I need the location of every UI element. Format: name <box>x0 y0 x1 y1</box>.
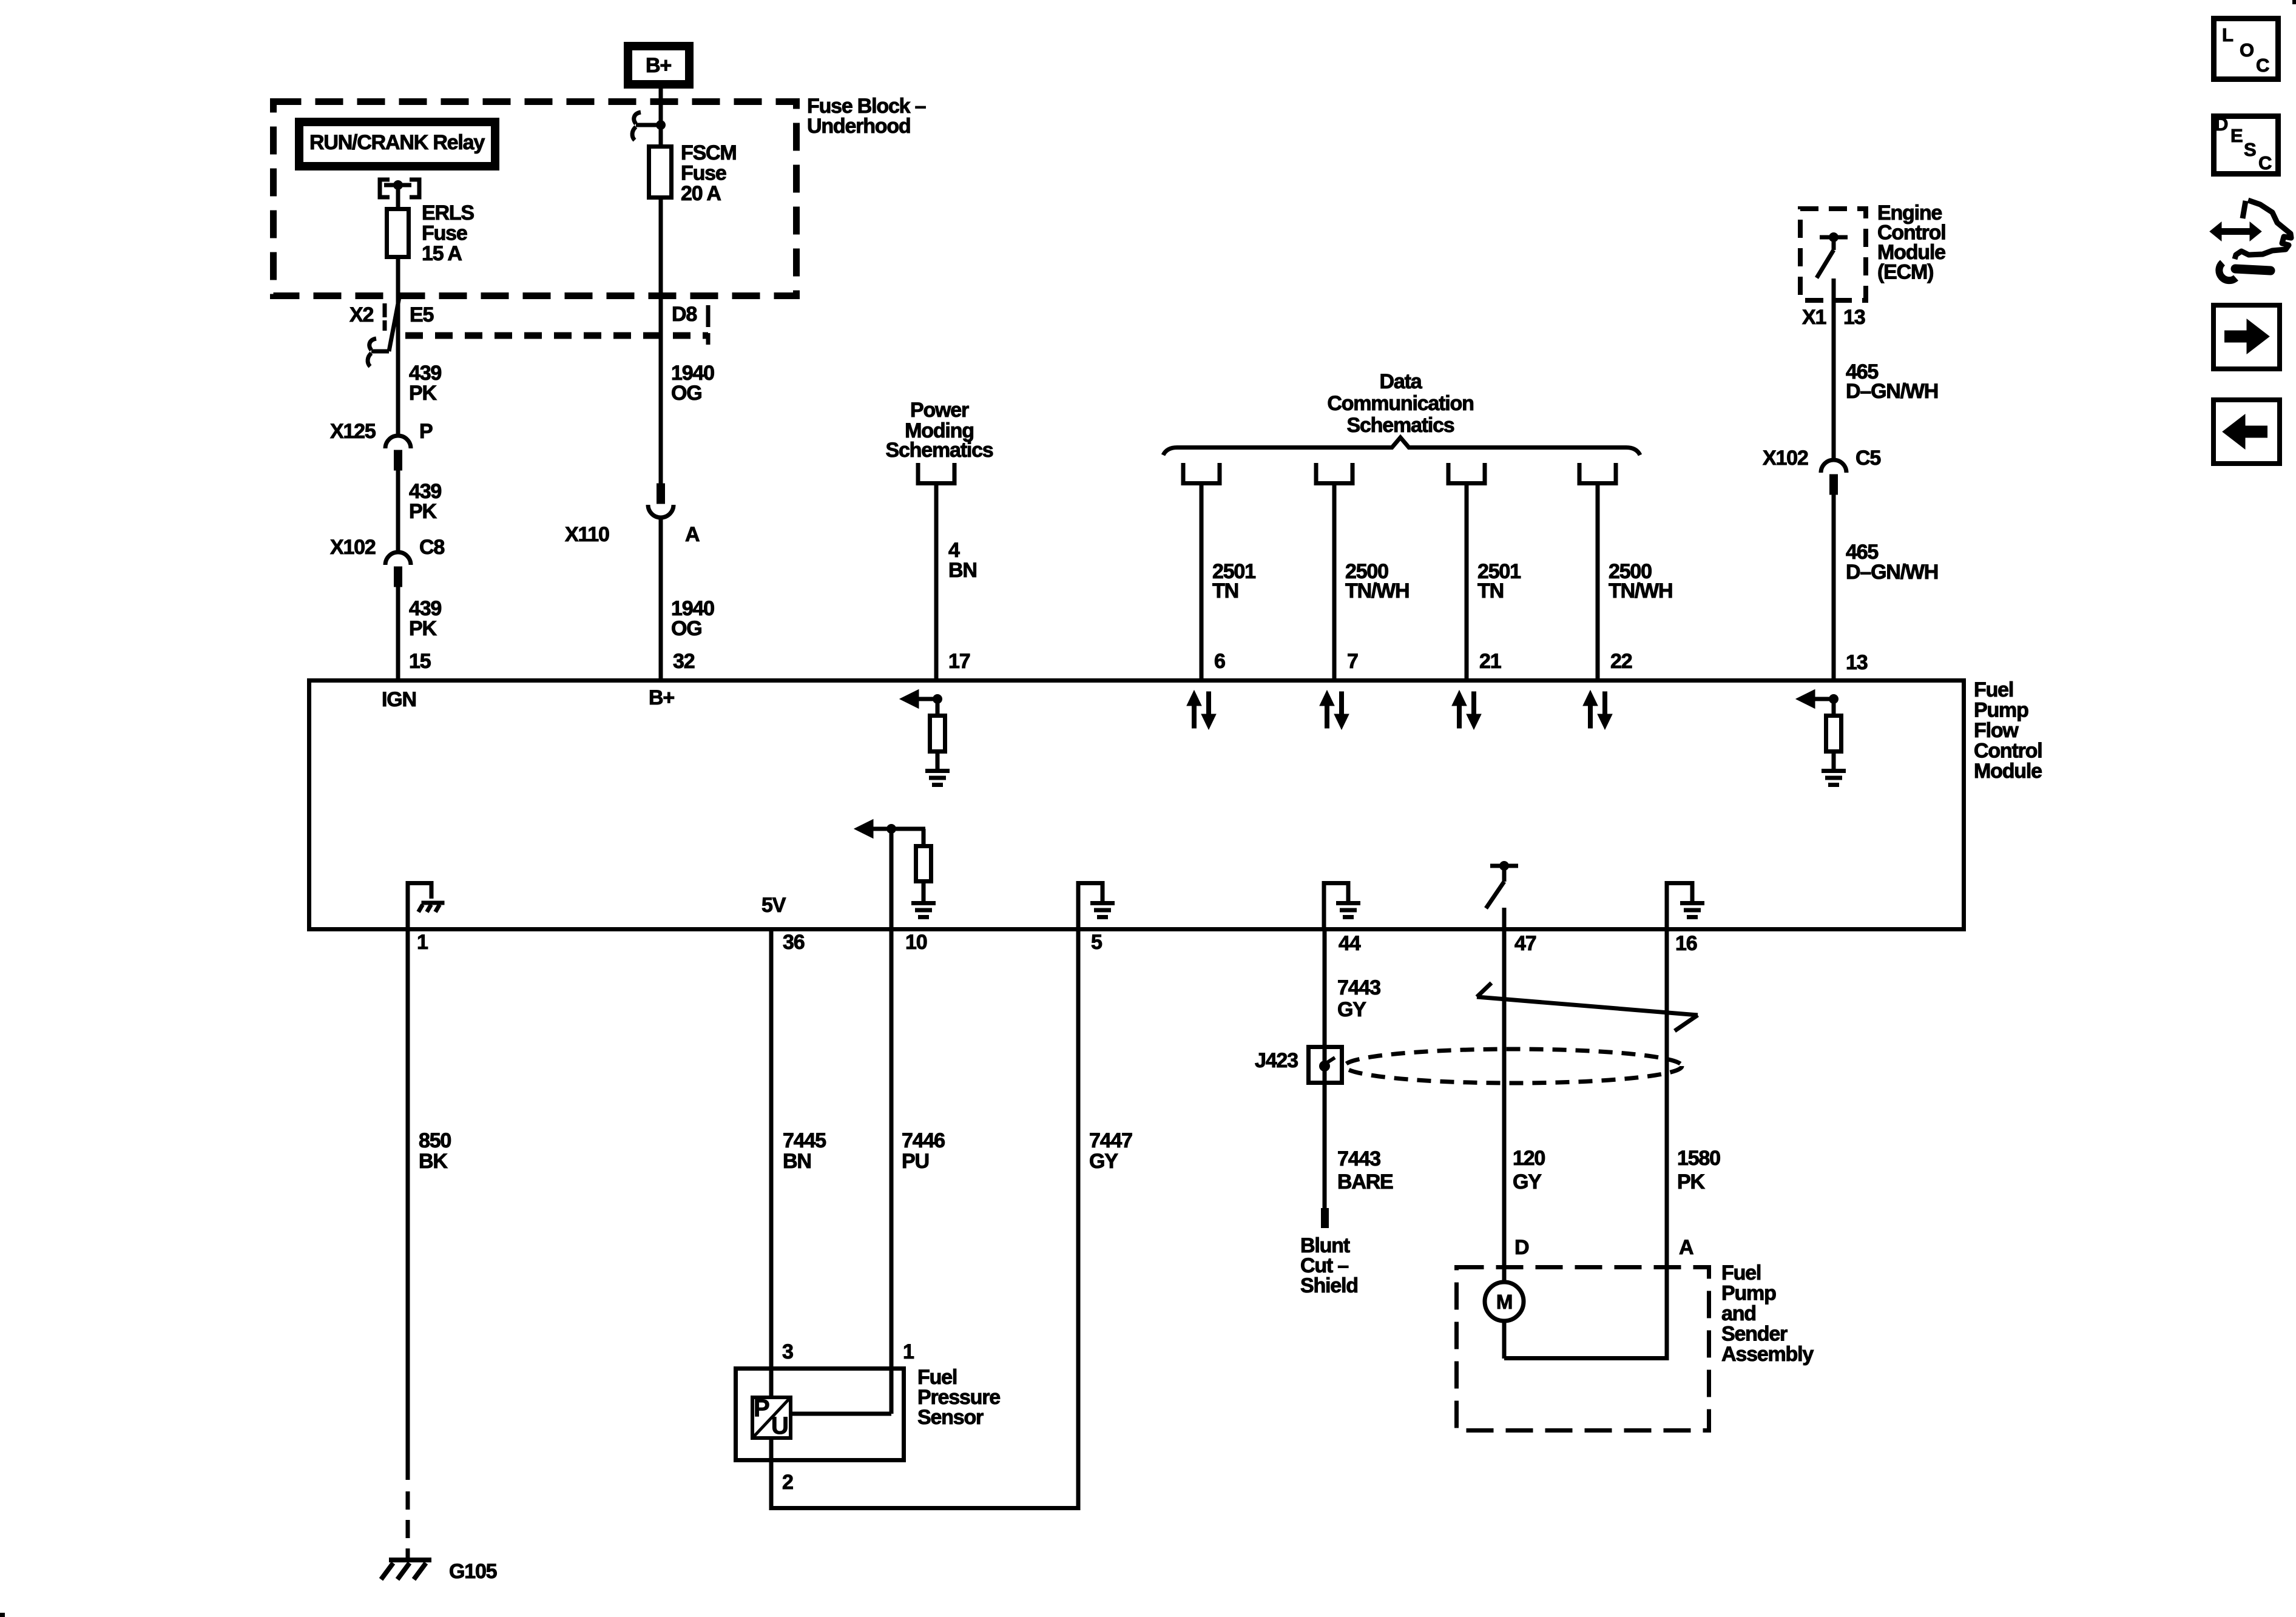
pin 5 internal ground <box>1076 881 1081 929</box>
svg-text:O: O <box>2240 39 2254 61</box>
svg-text:850: 850 <box>419 1129 451 1152</box>
svg-text:B+: B+ <box>649 686 674 709</box>
bidirectional arrows pin 21 <box>1452 690 1467 706</box>
svg-text:D8: D8 <box>672 303 697 326</box>
connector X2 tick <box>383 303 387 331</box>
svg-text:C8: C8 <box>419 536 444 559</box>
svg-text:FSCM: FSCM <box>681 141 737 164</box>
relay contact terminals <box>380 180 390 197</box>
svg-text:PK: PK <box>409 617 437 640</box>
svg-text:TN: TN <box>1477 579 1504 603</box>
junction dot relay contact <box>393 180 403 190</box>
wire 850 BK dashed section <box>406 1491 410 1560</box>
motor M <box>1485 1282 1524 1321</box>
svg-text:TN: TN <box>1212 579 1238 603</box>
pin 17 internal: arrow, dot, resistor, ground <box>900 690 919 709</box>
svg-text:Data: Data <box>1380 370 1423 393</box>
svg-text:U: U <box>771 1413 788 1439</box>
svg-text:IGN: IGN <box>382 688 416 711</box>
svg-text:7445: 7445 <box>783 1129 826 1152</box>
svg-text:1580: 1580 <box>1677 1147 1720 1170</box>
ECM dashed box <box>1800 209 1866 300</box>
pin 1 internal chassis ground <box>406 881 410 929</box>
svg-text:Pump: Pump <box>1974 699 2028 722</box>
svg-text:P: P <box>754 1395 769 1422</box>
svg-text:44: 44 <box>1339 932 1361 955</box>
wire 2500 TN/WH to pin 22 <box>1596 483 1600 683</box>
off-page pointer data link 21 <box>1448 463 1485 484</box>
wire 850 BK <box>406 931 410 1480</box>
wire 465 to pin 13 <box>1832 495 1836 683</box>
svg-text:5: 5 <box>1091 931 1102 954</box>
svg-text:7443: 7443 <box>1337 1147 1380 1170</box>
svg-text:PK: PK <box>409 382 437 405</box>
ECM driver switch <box>1820 235 1848 240</box>
svg-text:TN/WH: TN/WH <box>1345 579 1409 603</box>
svg-text:47: 47 <box>1514 932 1536 955</box>
svg-text:32: 32 <box>673 650 695 673</box>
wire ERLS fuse to pin 15 <box>396 259 400 436</box>
svg-text:D–GN/WH: D–GN/WH <box>1846 380 1938 403</box>
shield pointer line <box>1477 997 1698 1015</box>
icon LOC box <box>2214 19 2278 79</box>
svg-text:C: C <box>2256 55 2269 76</box>
svg-text:RUN/CRANK Relay: RUN/CRANK Relay <box>309 131 485 154</box>
svg-text:Fuel: Fuel <box>1974 678 2013 701</box>
wire 7443 BARE <box>1323 1085 1327 1210</box>
svg-text:10: 10 <box>905 931 927 954</box>
terminal clip E5 <box>371 349 389 354</box>
fuel pump flow control module box <box>309 681 1964 930</box>
svg-text:BK: BK <box>419 1150 448 1173</box>
wire motor to common <box>1502 1321 1507 1359</box>
icon DESC box <box>2214 116 2278 174</box>
wire 7447 GY (pin 5) <box>1076 931 1081 1510</box>
wire relay to ERLS fuse <box>396 185 400 209</box>
svg-text:M: M <box>1496 1291 1512 1313</box>
svg-text:15: 15 <box>409 650 431 673</box>
svg-text:TN/WH: TN/WH <box>1609 579 1672 603</box>
wire 7445 BN (pin 36) <box>769 931 774 1510</box>
brace over data links <box>1163 437 1640 455</box>
svg-text:B+: B+ <box>646 54 671 77</box>
terminal lead E5 (slant) <box>389 297 399 351</box>
svg-text:Power: Power <box>910 399 969 422</box>
svg-text:7447: 7447 <box>1089 1129 1132 1152</box>
ground G105 <box>389 1558 431 1562</box>
svg-text:E5: E5 <box>410 303 433 326</box>
shield dashed ellipse <box>1345 1049 1682 1083</box>
svg-text:X125: X125 <box>330 420 376 443</box>
svg-text:7: 7 <box>1347 650 1358 673</box>
bidirectional arrows pin 22 <box>1583 690 1598 706</box>
svg-text:C: C <box>2258 152 2272 174</box>
bidirectional arrows pin 7 <box>1320 690 1334 706</box>
wire 120 GY (pin 47) <box>1502 908 1507 1284</box>
svg-text:G105: G105 <box>449 1560 497 1583</box>
svg-text:16: 16 <box>1675 932 1697 955</box>
icon prev-page arrow box <box>2213 400 2280 464</box>
fuel pump and sender assembly dashed box <box>1457 1268 1709 1431</box>
svg-text:D: D <box>1514 1236 1529 1259</box>
svg-text:Schematics: Schematics <box>1347 414 1454 437</box>
svg-text:PK: PK <box>1677 1170 1705 1193</box>
svg-text:17: 17 <box>948 650 970 673</box>
svg-text:PU: PU <box>902 1150 929 1173</box>
svg-text:Pump: Pump <box>1721 1282 1776 1305</box>
svg-text:Flow: Flow <box>1974 719 2019 742</box>
svg-text:OG: OG <box>671 382 702 405</box>
svg-text:22: 22 <box>1610 650 1632 673</box>
svg-text:6: 6 <box>1214 650 1225 673</box>
sensor internal lead pin 1 <box>792 1412 891 1416</box>
pin 13 internal: arrow, dot, resistor, ground <box>1796 690 1815 709</box>
wire ECM to X1 13 <box>1832 279 1836 460</box>
svg-text:ERLS: ERLS <box>422 201 474 224</box>
svg-text:GY: GY <box>1089 1150 1118 1173</box>
svg-text:S: S <box>2244 139 2256 160</box>
svg-text:OG: OG <box>671 617 702 640</box>
svg-text:L: L <box>2222 24 2233 46</box>
svg-text:Communication: Communication <box>1327 392 1473 415</box>
fuse FSCM 20 A <box>649 147 672 198</box>
fuse block underhood dashed box <box>274 102 797 296</box>
svg-text:PK: PK <box>409 500 437 523</box>
svg-text:Fuel: Fuel <box>1721 1261 1761 1284</box>
wire FSCM fuse to pin 32 <box>659 200 663 485</box>
icon next-page arrow box <box>2213 305 2280 369</box>
svg-text:E: E <box>2230 125 2243 146</box>
connector row bottom dashed line <box>405 333 708 339</box>
svg-text:BARE: BARE <box>1337 1170 1393 1193</box>
svg-text:P: P <box>419 420 433 443</box>
svg-text:J423: J423 <box>1255 1049 1298 1072</box>
junction dot on B+ feed <box>656 120 666 130</box>
svg-text:and: and <box>1721 1302 1756 1325</box>
svg-text:2: 2 <box>782 1471 793 1494</box>
svg-text:Module: Module <box>1974 760 2042 783</box>
pin 44 internal ground <box>1322 881 1326 929</box>
P/U transducer symbol <box>752 1397 791 1438</box>
wire B+ box to FSCM fuse <box>659 89 663 146</box>
svg-text:Control: Control <box>1974 740 2042 763</box>
svg-text:15 A: 15 A <box>422 242 462 265</box>
wire 7446 PU (pin 10) <box>890 931 894 1414</box>
page corner mark top-right <box>2292 0 2296 4</box>
svg-text:1: 1 <box>903 1340 914 1363</box>
off-page pointer data link 22 <box>1579 463 1616 484</box>
bidirectional arrows pin 6 <box>1187 690 1201 706</box>
wire 2501 TN to pin 6 <box>1200 483 1204 683</box>
wire pump common <box>1504 1356 1669 1360</box>
svg-text:1: 1 <box>417 931 428 954</box>
off-page pointer power moding <box>918 463 954 484</box>
svg-text:Shield: Shield <box>1300 1274 1358 1297</box>
wire 2500 TN/WH to pin 7 <box>1332 483 1337 683</box>
svg-text:X2: X2 <box>349 303 373 326</box>
svg-text:BN: BN <box>783 1150 811 1173</box>
pin 16 internal ground <box>1665 881 1669 929</box>
connector D8 tick <box>706 305 711 345</box>
svg-text:3: 3 <box>782 1340 793 1363</box>
svg-text:X102: X102 <box>330 536 376 559</box>
svg-text:Schematics: Schematics <box>886 439 993 462</box>
fuse block bus clip at B+ <box>636 123 661 127</box>
svg-text:GY: GY <box>1513 1170 1542 1193</box>
svg-text:Sender: Sender <box>1721 1323 1788 1346</box>
wire 4 BN to pin 17 <box>934 481 939 683</box>
svg-text:Fuse: Fuse <box>422 222 467 245</box>
svg-text:D: D <box>2215 113 2228 135</box>
svg-text:BN: BN <box>948 559 977 582</box>
wire 2501 TN to pin 21 <box>1465 483 1469 683</box>
svg-text:13: 13 <box>1843 306 1865 329</box>
svg-text:120: 120 <box>1513 1147 1545 1170</box>
svg-text:7446: 7446 <box>902 1129 945 1152</box>
B+ power feed box <box>628 46 689 84</box>
svg-text:C5: C5 <box>1855 447 1880 470</box>
wire 7443 GY (pin 44) <box>1323 931 1327 1047</box>
fuse ERLS 15 A <box>387 209 409 257</box>
svg-text:GY: GY <box>1337 998 1366 1021</box>
wire sensor pin 2 to 7447 GY <box>771 1506 1078 1510</box>
off-page pointer data link 7 <box>1316 463 1352 484</box>
pin 10 internal: arrow, dot, resistor, ground (5V pull-up) <box>854 820 873 839</box>
svg-text:X102: X102 <box>1763 447 1808 470</box>
svg-text:Underhood: Underhood <box>807 115 911 138</box>
wire 439 PK to X102 <box>396 470 400 552</box>
splice J423 box <box>1309 1047 1342 1083</box>
svg-text:Fuse: Fuse <box>681 162 726 185</box>
svg-text:13: 13 <box>1846 651 1868 674</box>
off-page pointer data link 6 <box>1183 463 1220 484</box>
svg-text:Sensor: Sensor <box>917 1406 984 1429</box>
svg-text:20 A: 20 A <box>681 182 721 205</box>
blunt cut terminal <box>1321 1208 1329 1228</box>
svg-text:7443: 7443 <box>1337 976 1380 999</box>
svg-text:X110: X110 <box>565 523 609 546</box>
wire 439 PK to pin 15 <box>396 586 400 683</box>
svg-text:21: 21 <box>1479 650 1501 673</box>
splice dot J423 <box>1319 1061 1330 1072</box>
relay contact bar <box>384 183 411 187</box>
page corner mark <box>0 1613 5 1617</box>
svg-text:5V: 5V <box>761 894 786 917</box>
svg-text:(ECM): (ECM) <box>1877 261 1933 284</box>
wire 1580 PK (pin 16) <box>1665 931 1669 1360</box>
svg-text:Assembly: Assembly <box>1721 1343 1814 1366</box>
icon hand/wrench <box>2235 200 2291 259</box>
svg-text:36: 36 <box>783 931 805 954</box>
svg-text:X1: X1 <box>1802 306 1826 329</box>
svg-text:A: A <box>685 523 700 546</box>
fuel pressure sensor box <box>736 1369 904 1460</box>
wire through J423 <box>1323 1045 1327 1085</box>
pin 47 internal switch <box>1490 864 1518 868</box>
svg-text:D–GN/WH: D–GN/WH <box>1846 561 1938 584</box>
relay RUN/CRANK box <box>299 122 495 166</box>
wire dot to pin 10 <box>890 829 894 929</box>
wire 1940 OG to pin 32 <box>659 517 663 683</box>
svg-text:A: A <box>1679 1236 1693 1259</box>
